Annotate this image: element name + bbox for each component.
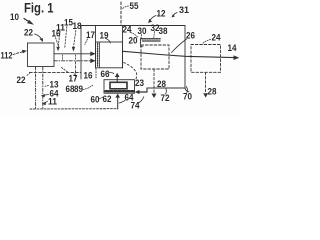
leader 66 squiggle xyxy=(108,73,114,74)
svg-text:89: 89 xyxy=(74,84,83,94)
leader 60 xyxy=(100,97,104,99)
leader 24 right xyxy=(203,40,211,44)
svg-text:10: 10 xyxy=(10,12,19,22)
leader 24 top xyxy=(131,33,138,38)
svg-text:23: 23 xyxy=(135,78,144,88)
box 23/62 unit (inner vessel) xyxy=(96,42,123,68)
svg-text:24: 24 xyxy=(123,25,132,35)
svg-text:26: 26 xyxy=(186,31,195,41)
container right edge xyxy=(185,26,189,92)
leader 30 xyxy=(140,35,141,45)
arrow up into filter bottom xyxy=(115,94,120,109)
dotted tick between pipes A xyxy=(62,55,64,60)
svg-text:22: 22 xyxy=(24,28,33,38)
leader 72 xyxy=(165,89,168,94)
leader arrow for 10 xyxy=(24,19,34,25)
filter unit inner box xyxy=(110,82,127,89)
drop line under pipe xyxy=(75,62,77,80)
svg-text:112: 112 xyxy=(1,51,13,61)
filter unit hatch band xyxy=(106,90,134,92)
svg-text:55: 55 xyxy=(130,1,139,11)
leader 16 top xyxy=(56,38,60,48)
leader for 22 bottom xyxy=(27,73,30,76)
svg-text:16: 16 xyxy=(84,71,93,81)
drain line A under box 22 xyxy=(35,67,37,109)
filter unit outer box xyxy=(104,80,135,94)
svg-text:14: 14 xyxy=(228,43,237,53)
svg-text:30: 30 xyxy=(138,26,147,36)
feed pipe upper from 22 to vessel xyxy=(54,52,96,57)
svg-text:17: 17 xyxy=(69,74,78,84)
drain line B under box 22 xyxy=(42,67,44,109)
svg-text:20: 20 xyxy=(129,36,138,46)
bottom dashed rail xyxy=(30,108,118,110)
leader 11 top xyxy=(56,32,60,52)
feed pipe lower from 22 to vessel xyxy=(54,59,96,64)
leader 11 bottom xyxy=(42,102,48,106)
svg-text:72: 72 xyxy=(161,93,170,103)
leader 64 right xyxy=(119,101,125,104)
dotted tick between pipes B xyxy=(75,55,77,60)
dotted fill of wall xyxy=(97,44,99,67)
svg-text:28: 28 xyxy=(208,87,217,97)
svg-text:62: 62 xyxy=(103,94,112,104)
leader 74 xyxy=(139,97,144,103)
svg-text:60: 60 xyxy=(91,95,100,105)
svg-text:24: 24 xyxy=(212,33,221,43)
divider wall (box 12 right side of unit) xyxy=(122,26,124,69)
dashed arc from vessel to filter xyxy=(124,63,137,80)
svg-text:12: 12 xyxy=(157,9,166,19)
dashed drop from box 20 xyxy=(152,69,157,98)
leader 15 xyxy=(65,27,67,48)
svg-text:Fig. 1: Fig. 1 xyxy=(24,0,54,16)
inner wall left of unit 19 xyxy=(95,26,97,69)
bracket for 20 xyxy=(141,39,144,47)
hatched wall inside left of vessel xyxy=(99,42,101,68)
dashed feed line 55 xyxy=(120,2,122,25)
sparger dotted strip row1 xyxy=(142,38,161,40)
leader 70 xyxy=(186,87,187,93)
svg-text:11: 11 xyxy=(48,97,57,107)
leader for 12 xyxy=(148,16,156,24)
svg-text:31: 31 xyxy=(179,5,189,15)
bottom return line xyxy=(147,87,185,89)
arrow into filter right side xyxy=(135,90,147,94)
svg-text:22: 22 xyxy=(17,75,26,85)
dashed diagonal stub left of wall xyxy=(62,68,68,72)
sparger dotted strip row2 xyxy=(143,40,161,42)
leader for 55 xyxy=(122,6,129,10)
svg-text:74: 74 xyxy=(131,101,140,111)
svg-text:16: 16 xyxy=(52,29,61,39)
svg-text:38: 38 xyxy=(159,26,168,36)
main product line xyxy=(123,51,240,60)
leader 18 xyxy=(72,31,76,52)
container top edge xyxy=(81,25,185,27)
leader for 31 xyxy=(172,13,178,18)
leader for 19 xyxy=(106,39,111,44)
arrow 66 up into vessel xyxy=(115,73,120,82)
leader 17 bottom xyxy=(74,72,76,75)
leader for 17 upper xyxy=(85,39,88,45)
leader 32 xyxy=(153,32,156,38)
leader for 22 top xyxy=(35,34,44,42)
dashed box 20 region xyxy=(141,45,169,69)
leader 26 xyxy=(172,39,187,53)
stub down to filter arrow xyxy=(146,88,148,92)
svg-text:70: 70 xyxy=(183,92,192,102)
dashed line under box 22 xyxy=(30,71,82,73)
leader 64 left xyxy=(41,94,49,97)
box 22 (left unit) xyxy=(28,43,55,67)
container left edge xyxy=(80,26,82,80)
dashed drop from box 24 xyxy=(203,72,208,97)
leader 89 xyxy=(83,85,94,90)
svg-text:17: 17 xyxy=(86,30,95,40)
svg-text:18: 18 xyxy=(73,21,82,31)
dotted stub below vessel wall xyxy=(95,69,97,79)
leader 13 xyxy=(44,86,49,87)
dashed box 24 region xyxy=(191,45,221,73)
svg-text:66: 66 xyxy=(101,69,110,79)
leader for 112 xyxy=(13,50,27,55)
